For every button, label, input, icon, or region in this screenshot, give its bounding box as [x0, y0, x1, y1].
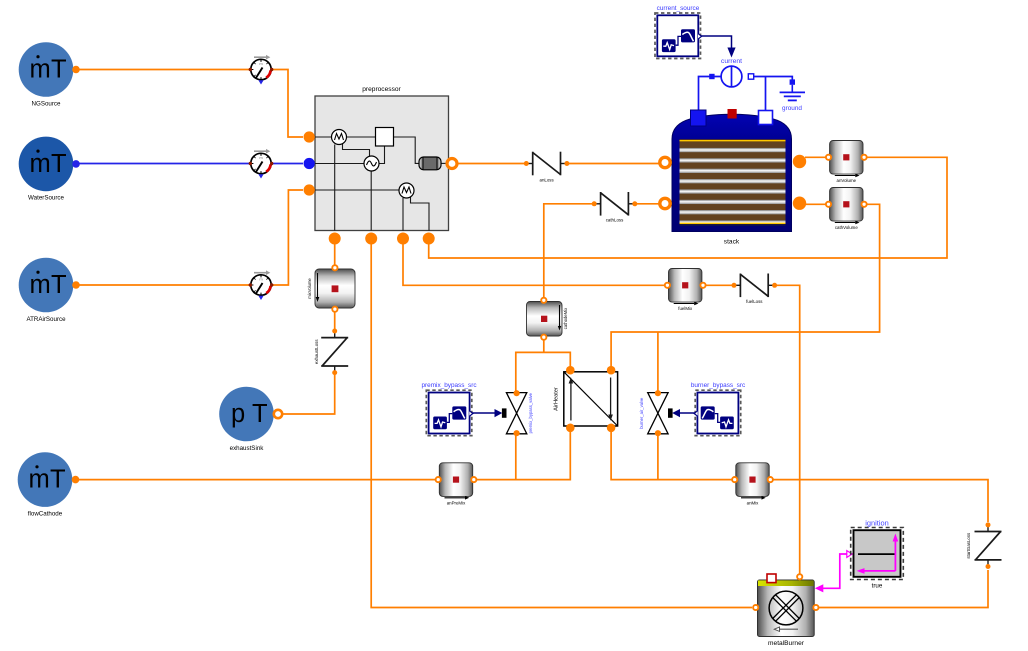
mixer box — [376, 128, 394, 147]
svg-text:p: p — [231, 400, 245, 428]
source ATRAirSource — [19, 258, 80, 323]
svg-text:burner_bypass_src: burner_bypass_src — [691, 382, 746, 389]
volume mixVolume (vertical ports) — [307, 265, 355, 312]
svg-text:anVolume: anVolume — [837, 178, 857, 183]
svg-text:ATRAirSource: ATRAirSource — [26, 316, 66, 323]
signal source burner_bypass_src — [691, 382, 746, 436]
svg-text:preprocessor: preprocessor — [362, 86, 401, 93]
svg-text:ignition: ignition — [865, 519, 888, 528]
stack pin positive (blue square) — [691, 110, 707, 126]
svg-text:anLoss: anLoss — [540, 178, 555, 183]
volume anMix — [732, 463, 773, 506]
signal wire premix src to valve — [472, 412, 495, 414]
preprocessor bottom ports — [329, 233, 341, 245]
wire preprocessor port2 down to metalBurner inlet — [371, 243, 752, 608]
valve premix_bypass_valve — [502, 390, 533, 436]
wire preprocessor port3 to fuelMix — [403, 243, 666, 285]
wire ATRAirSource to sensor3 — [76, 284, 251, 286]
wire sensor3 to preprocessor port air — [272, 190, 303, 285]
pressure loss exhaustLoss — [314, 329, 348, 376]
volume cathVolume — [826, 188, 867, 231]
svg-text:premix_bypass_valve: premix_bypass_valve — [528, 392, 533, 433]
svg-text:AirHeater: AirHeater — [554, 387, 560, 411]
svg-text:true: true — [872, 583, 883, 590]
source NGSource — [19, 42, 80, 107]
svg-text:mixVolume: mixVolume — [307, 278, 312, 299]
wire fuelMix to fuelLoss — [705, 284, 734, 286]
wire mixVolume to exhaustLoss — [334, 310, 336, 331]
ground symbol — [780, 79, 805, 112]
current source component "current" — [721, 58, 742, 87]
svg-text:T: T — [252, 400, 268, 428]
svg-text:metalBurner: metalBurner — [768, 640, 805, 646]
wire anVolume back to preprocessor (anode recycle) — [429, 157, 947, 258]
signal wire ignition to metalBurner — [823, 554, 847, 588]
heat exchanger hx2 — [364, 156, 379, 171]
wire flowCathode to anPreMix — [76, 479, 437, 481]
stack anode inlet ring — [660, 157, 670, 167]
svg-text:burner_air_valve: burner_air_valve — [639, 397, 644, 429]
heat exchanger AirHeater — [554, 366, 618, 432]
svg-text:cathVolume: cathVolume — [835, 225, 859, 230]
valve burner_bypass_valve — [639, 390, 673, 436]
sensor NG flow — [249, 55, 274, 85]
wire anPreMix to AirHeater cold inlet, with premix valve branch — [475, 430, 570, 480]
sensor ATR air flow — [249, 270, 274, 300]
wire anLoss to stack anode inlet — [567, 163, 659, 165]
volume fuelMix — [665, 269, 706, 312]
wire WaterSource to sensor2 (blue water line) — [76, 163, 251, 165]
pressure loss anLoss — [524, 152, 570, 183]
reformer capsule — [419, 157, 441, 170]
svg-text:ground: ground — [782, 105, 802, 112]
source WaterSource — [19, 137, 80, 202]
wire branch to burner_bypass valve top — [657, 332, 659, 392]
signal source current_source — [655, 5, 702, 59]
wire preprocessor outlet to anLoss — [456, 163, 526, 165]
svg-text:exhaustLoss: exhaustLoss — [314, 339, 319, 364]
volume anVolume — [826, 141, 867, 184]
negative pin open square on lead — [748, 74, 753, 79]
svg-text:cathLoss: cathLoss — [606, 218, 624, 223]
wire preprocessor exhaust to mixVolume — [334, 243, 336, 267]
stack cathode inlet ring — [660, 198, 670, 208]
wire startGasLoss to metalBurner right port — [819, 570, 988, 608]
signal source premix_bypass_src — [421, 382, 477, 436]
preprocessor block — [304, 86, 457, 245]
wire sensor2 to preprocessor port water — [272, 163, 303, 165]
svg-text:current_source: current_source — [657, 5, 700, 12]
signal wire burner src to valve — [680, 412, 696, 414]
stack cathode outlet port — [793, 197, 806, 210]
preprocessor outlet ring — [447, 159, 457, 169]
svg-text:cathodeMix: cathodeMix — [563, 307, 568, 329]
svg-text:flowCathode: flowCathode — [28, 511, 63, 518]
fuel cell stack — [660, 109, 806, 246]
svg-text:anPreMix: anPreMix — [447, 501, 466, 506]
signal wire current_source to current — [701, 36, 732, 49]
svg-text:fuelLoss: fuelLoss — [746, 299, 763, 304]
wire cathodeMix bottom manifold — [543, 338, 545, 352]
svg-text:premix_bypass_src: premix_bypass_src — [421, 382, 477, 389]
wire cathLoss to stack cathode inlet — [635, 203, 659, 205]
svg-text:WaterSource: WaterSource — [28, 195, 64, 202]
stack pin negative (open square) — [759, 111, 773, 125]
wire stack cathode outlet to cathVolume — [805, 203, 826, 205]
svg-text:stack: stack — [724, 239, 740, 246]
preprocessor port air (orange) — [304, 184, 315, 195]
svg-text:T: T — [51, 150, 67, 178]
svg-text:anMix: anMix — [747, 501, 760, 506]
svg-text:NGSource: NGSource — [32, 101, 61, 108]
preprocessor port water (blue) — [304, 158, 315, 169]
volume cathodeMix (vertical ports) — [527, 298, 569, 340]
wire anMix to startGasLoss — [771, 480, 988, 522]
pressure loss startGasLoss — [966, 522, 1002, 569]
heat exchanger hx3 — [399, 183, 414, 198]
source flowCathode — [18, 452, 80, 517]
preprocessor port NG (orange) — [304, 131, 315, 142]
sensor water flow — [249, 149, 274, 179]
wire current source left lead to stack positive pin — [699, 77, 722, 111]
pressure loss fuelLoss — [732, 274, 778, 305]
wire exhaustLoss to exhaustSink — [281, 373, 335, 414]
burner metalBurner — [753, 574, 818, 647]
wire stack anode outlet to anVolume — [805, 156, 826, 158]
wire cathVolume to AirHeater hot inlet — [611, 204, 880, 370]
svg-text:startGasLoss: startGasLoss — [966, 532, 971, 559]
wire sensor1 to preprocessor port NG — [272, 70, 303, 138]
svg-text:m: m — [30, 150, 51, 178]
svg-text:exhaustSink: exhaustSink — [230, 445, 265, 452]
wire NGSource to sensor1 — [76, 69, 251, 71]
stack heat port (red square) — [728, 109, 737, 119]
svg-text:current: current — [721, 58, 742, 65]
wire cathLoss to cathodeMix volume — [544, 204, 594, 299]
stack anode outlet port — [793, 155, 806, 168]
wire current source right lead to ground and stack negative pin — [754, 77, 793, 80]
wire AirHeater outlet to anMix, with burner valve branch — [611, 430, 734, 480]
wire fuelLoss to metalBurner top port — [775, 285, 800, 574]
boolean source ignition — [851, 519, 904, 590]
svg-text:fuelMix: fuelMix — [678, 306, 693, 311]
pressure loss cathLoss — [592, 192, 638, 223]
positive pin square on lead — [709, 74, 714, 79]
sink exhaustSink — [219, 387, 282, 452]
volume anPreMix — [436, 463, 477, 506]
heat exchanger hx1 — [332, 130, 347, 145]
